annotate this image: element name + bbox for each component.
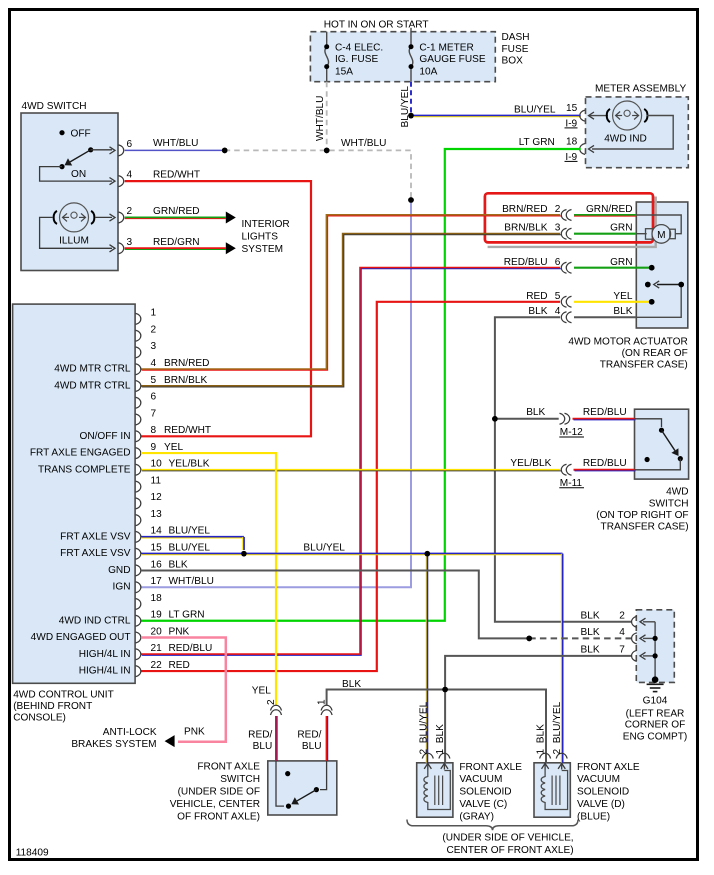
inline connector 1 (front axle switch) xyxy=(321,705,332,710)
svg-text:1: 1 xyxy=(151,308,157,319)
svg-text:ON/OFF IN: ON/OFF IN xyxy=(79,431,130,442)
svg-text:YEL: YEL xyxy=(252,686,271,697)
junction dot BLU/YEL xyxy=(408,113,414,119)
svg-text:FUSE: FUSE xyxy=(502,44,529,55)
actuator pin 4 inline connector xyxy=(561,312,566,323)
control unit pin numbers xyxy=(151,308,163,671)
svg-text:WHT/BLU: WHT/BLU xyxy=(341,138,386,149)
wire RED control unit pin 22 to actuator pin 5 xyxy=(141,302,560,671)
svg-text:1: 1 xyxy=(316,699,327,705)
wire RED/BLU connector 2 to front axle switch xyxy=(275,716,277,761)
svg-text:10A: 10A xyxy=(419,67,437,78)
wire BLK branch down to valve C pin 1 xyxy=(444,690,446,763)
illumination lamp ILLUM xyxy=(60,203,89,232)
fuse C-1 METER GAUGE FUSE 10A xyxy=(410,28,412,47)
lamp wire to pin 3 xyxy=(40,217,112,248)
svg-text:METER ASSEMBLY: METER ASSEMBLY xyxy=(595,83,687,94)
svg-text:11: 11 xyxy=(151,475,162,486)
svg-text:6: 6 xyxy=(127,139,133,150)
svg-text:5: 5 xyxy=(151,375,157,386)
svg-text:(BLUE): (BLUE) xyxy=(577,811,610,822)
svg-text:6: 6 xyxy=(151,392,157,403)
wire RED/BLU connector 1 to front axle switch xyxy=(326,716,328,761)
svg-text:SWITCH: SWITCH xyxy=(649,498,689,509)
dashed wire WHT/BLU to fuse box xyxy=(225,150,411,200)
svg-text:21: 21 xyxy=(151,643,163,654)
svg-text:BLU/YEL: BLU/YEL xyxy=(514,105,556,116)
junction dots overlay xyxy=(222,113,684,693)
svg-text:7: 7 xyxy=(151,408,157,419)
wire BLU/YEL to meter pin 15 xyxy=(411,115,581,117)
svg-text:5: 5 xyxy=(555,291,561,302)
dashed wire BLK to G104 pin 4 xyxy=(529,637,632,639)
junction dot on BLK dashed G104 pin 4 xyxy=(526,636,532,642)
junction dot M-12 branch xyxy=(492,416,498,422)
svg-text:4WD IND CTRL: 4WD IND CTRL xyxy=(59,615,131,626)
svg-text:(ON TOP RIGHT OF: (ON TOP RIGHT OF xyxy=(596,510,688,521)
control unit internal pin labels xyxy=(30,364,131,677)
svg-text:RED/BLU: RED/BLU xyxy=(583,407,627,418)
wire BLK to connector M-12 xyxy=(495,418,559,420)
ground connector G104 box xyxy=(636,610,674,683)
junction dot BLU/YEL to valve C xyxy=(425,551,431,557)
svg-text:4WD MTR CTRL: 4WD MTR CTRL xyxy=(54,364,131,375)
svg-text:17: 17 xyxy=(151,576,163,587)
svg-text:IG. FUSE: IG. FUSE xyxy=(335,54,378,65)
svg-text:TRANS COMPLETE: TRANS COMPLETE xyxy=(38,464,131,475)
svg-text:4: 4 xyxy=(151,358,157,369)
svg-text:BLK: BLK xyxy=(613,306,632,317)
4WD dash switch pin 4 bracket xyxy=(119,176,124,187)
front axle vacuum solenoid valve C box xyxy=(417,763,453,817)
actuator internal wire pin 2 to motor xyxy=(636,215,681,234)
wire BLU/YEL control unit pin 14 xyxy=(141,536,244,538)
svg-text:CORNER OF: CORNER OF xyxy=(625,720,686,731)
wire GRN/RED actuator pin 2 xyxy=(574,214,636,216)
svg-text:BRN/BLK: BRN/BLK xyxy=(504,222,547,233)
svg-text:BLK: BLK xyxy=(342,679,361,690)
wire LT GRN meter pin 18 to control unit pin 19 xyxy=(141,149,581,621)
wire RED/BLU M-12 to transfer case switch xyxy=(573,418,635,420)
svg-text:C-4 ELEC.: C-4 ELEC. xyxy=(335,43,383,54)
svg-text:TRANSFER CASE): TRANSFER CASE) xyxy=(600,360,688,371)
svg-text:7: 7 xyxy=(619,645,625,656)
wire BLK branch up to G104 pin 7 xyxy=(445,656,632,690)
svg-text:VALVE (D): VALVE (D) xyxy=(577,799,625,810)
svg-text:ON: ON xyxy=(71,169,86,180)
svg-text:DASH: DASH xyxy=(502,32,530,43)
svg-text:3: 3 xyxy=(151,341,157,352)
svg-text:15: 15 xyxy=(566,103,578,114)
svg-text:YEL: YEL xyxy=(164,442,183,453)
svg-text:LIGHTS: LIGHTS xyxy=(242,232,279,243)
svg-text:C-1 METER: C-1 METER xyxy=(419,43,473,54)
svg-text:ILLUM: ILLUM xyxy=(59,236,89,247)
svg-text:BLK: BLK xyxy=(581,627,600,638)
4WD switch (transfer case) box xyxy=(635,409,689,479)
svg-text:SYSTEM: SYSTEM xyxy=(242,244,284,255)
wire WHT/BLU from switch pin 6 xyxy=(125,149,225,151)
svg-text:G104: G104 xyxy=(643,696,668,707)
svg-text:9: 9 xyxy=(151,442,157,453)
wire BRN/RED control unit pin 4 to actuator pin 2 xyxy=(141,215,560,369)
svg-text:ENG COMPT): ENG COMPT) xyxy=(623,732,688,743)
svg-text:OF FRONT AXLE): OF FRONT AXLE) xyxy=(177,812,260,823)
svg-text:RED/GRN: RED/GRN xyxy=(153,237,200,248)
junction dot WHT/BLU xyxy=(222,148,228,154)
svg-text:1 BLK: 1 BLK xyxy=(435,724,446,755)
svg-text:BLU/YEL: BLU/YEL xyxy=(400,86,411,128)
actuator contact dot pin 5 xyxy=(649,299,655,305)
meter assembly box xyxy=(586,97,689,168)
svg-text:4WD IND: 4WD IND xyxy=(604,134,647,145)
wire BLU/YEL control unit pin 15 to valve D xyxy=(141,553,563,555)
front axle switch internal wires xyxy=(276,761,284,806)
control unit pin wire name labels xyxy=(164,358,214,671)
svg-text:12: 12 xyxy=(151,492,163,503)
svg-text:2: 2 xyxy=(619,611,625,622)
brace under solenoid valves xyxy=(407,820,578,831)
wire WHT/BLU to control unit pin 17 xyxy=(141,200,411,587)
junction dot fuse C-4 drop xyxy=(324,148,330,154)
red highlight box shadow xyxy=(488,197,656,247)
svg-text:4WD: 4WD xyxy=(666,487,688,498)
G104 pin 2 bracket and arrow xyxy=(632,616,637,627)
meter internal wire lamp to pin 18 xyxy=(592,116,673,150)
svg-text:IGN: IGN xyxy=(113,582,131,593)
svg-text:6: 6 xyxy=(555,257,561,268)
fuse C-4 ELEC IG FUSE 15A xyxy=(326,32,328,47)
wire BRN/BLK control unit pin 5 to actuator pin 3 xyxy=(141,234,560,386)
svg-text:VACUUM: VACUUM xyxy=(459,774,502,785)
svg-text:2 BLU/YEL: 2 BLU/YEL xyxy=(418,701,429,754)
dashed wire BLU/YEL from fuse C-1 xyxy=(410,82,412,116)
svg-text:GRN/RED: GRN/RED xyxy=(586,204,633,215)
junction dot pin14-pin15 xyxy=(241,551,247,557)
arrow to interior lights system (RED/GRN) xyxy=(226,242,236,254)
svg-text:4WD ENGAGED OUT: 4WD ENGAGED OUT xyxy=(31,632,131,643)
svg-text:RED: RED xyxy=(169,660,190,671)
svg-text:RED/: RED/ xyxy=(297,730,321,741)
svg-text:FRT AXLE VSV: FRT AXLE VSV xyxy=(60,531,131,542)
wire YEL/BLK control unit pin 10 to connector M-11 xyxy=(141,469,560,471)
svg-text:GAUGE FUSE: GAUGE FUSE xyxy=(419,54,485,65)
front axle switch box xyxy=(268,761,337,815)
svg-text:BLU/YEL: BLU/YEL xyxy=(169,542,211,553)
valve C internals coil and pins xyxy=(422,753,433,758)
svg-text:2: 2 xyxy=(266,699,277,705)
4WD dash switch pin 2 bracket xyxy=(119,212,124,223)
svg-text:RED/WHT: RED/WHT xyxy=(153,170,200,181)
svg-text:BLU: BLU xyxy=(253,741,273,752)
svg-text:BLU: BLU xyxy=(302,741,322,752)
4WD control unit box xyxy=(13,304,136,683)
arrow to interior lights system (GRN/RED) xyxy=(226,212,236,224)
actuator internal wire pin 3 to motor xyxy=(636,233,646,235)
svg-text:RED/BLU: RED/BLU xyxy=(583,458,627,469)
svg-text:VEHICLE, CENTER: VEHICLE, CENTER xyxy=(170,799,260,810)
svg-text:PNK: PNK xyxy=(184,727,205,738)
4WD dash switch ON contact and blade xyxy=(88,147,93,152)
svg-text:WHT/BLU: WHT/BLU xyxy=(153,138,198,149)
svg-text:VALVE (C): VALVE (C) xyxy=(459,799,507,810)
svg-text:RED/BLU: RED/BLU xyxy=(504,257,548,268)
svg-text:WHT/BLU: WHT/BLU xyxy=(169,576,214,587)
svg-text:4WD MTR CTRL: 4WD MTR CTRL xyxy=(54,380,131,391)
svg-text:19: 19 xyxy=(151,610,163,621)
wire BLK control unit pin 16 to G104 pin 4 xyxy=(141,570,529,638)
svg-text:(UNDER SIDE OF: (UNDER SIDE OF xyxy=(178,787,260,798)
svg-text:SOLENOID: SOLENOID xyxy=(577,787,629,798)
svg-text:BOX: BOX xyxy=(502,56,524,67)
svg-text:1 BLK: 1 BLK xyxy=(536,724,547,755)
4WD dash switch pin 6 bracket xyxy=(119,145,124,156)
svg-text:BLK: BLK xyxy=(581,611,600,622)
svg-text:HIGH/4L IN: HIGH/4L IN xyxy=(79,666,131,677)
4WD dash switch pin 3 bracket xyxy=(119,243,124,254)
svg-text:BRN/RED: BRN/RED xyxy=(502,204,547,215)
wire BLK actuator pin 4 right side and internal xyxy=(574,316,636,318)
actuator pin 2 inline connector xyxy=(561,210,566,221)
svg-text:GRN: GRN xyxy=(610,222,632,233)
wire YEL control unit pin 9 to front axle switch xyxy=(141,453,276,705)
svg-text:(GRAY): (GRAY) xyxy=(459,811,494,822)
front axle switch contacts and blade xyxy=(285,771,290,776)
wire BLU/YEL branch to valve C xyxy=(426,554,428,763)
svg-text:15A: 15A xyxy=(335,67,353,78)
arrow to anti-lock brakes system xyxy=(165,735,175,747)
svg-text:BLK: BLK xyxy=(581,645,600,656)
motor M xyxy=(646,229,655,240)
wire GRN actuator pin 3 xyxy=(574,233,636,235)
4WD switch (dash) box xyxy=(21,113,118,271)
svg-text:HIGH/4L IN: HIGH/4L IN xyxy=(79,649,131,660)
svg-text:BRAKES SYSTEM: BRAKES SYSTEM xyxy=(71,739,156,750)
svg-text:18: 18 xyxy=(566,137,578,148)
svg-text:RED/: RED/ xyxy=(248,730,272,741)
svg-text:SWITCH: SWITCH xyxy=(220,774,260,785)
junction dot WHT/BLU riser top xyxy=(408,197,414,203)
G104 pin 7 bracket and arrow xyxy=(632,650,637,661)
wire RED/WHT from switch pin 4 to control unit pin 8 xyxy=(125,181,311,436)
svg-text:4WD SWITCH: 4WD SWITCH xyxy=(22,101,87,112)
svg-text:INTERIOR: INTERIOR xyxy=(242,219,290,230)
svg-text:14: 14 xyxy=(151,526,163,537)
wire BLK bottom net front axle switch to valve D xyxy=(327,690,546,763)
inline connector M-11 xyxy=(561,464,566,475)
G104 pin 4 bracket and arrow xyxy=(632,633,637,644)
G104 ground connection dot xyxy=(652,676,659,683)
front axle vacuum solenoid valve D box xyxy=(534,763,570,817)
svg-text:BRN/RED: BRN/RED xyxy=(164,358,209,369)
transfer case switch internals xyxy=(635,419,662,427)
svg-text:2: 2 xyxy=(555,204,561,215)
svg-text:10: 10 xyxy=(151,459,163,470)
4WD IND lamp xyxy=(613,101,642,130)
svg-text:(ON REAR OF: (ON REAR OF xyxy=(622,348,688,359)
svg-text:YEL/BLK: YEL/BLK xyxy=(510,458,551,469)
svg-text:GRN: GRN xyxy=(610,257,632,268)
svg-text:20: 20 xyxy=(151,626,163,637)
svg-text:4: 4 xyxy=(127,170,133,181)
svg-text:GRN/RED: GRN/RED xyxy=(153,206,200,217)
red highlight box xyxy=(485,193,653,242)
svg-text:HOT IN ON OR START: HOT IN ON OR START xyxy=(324,19,429,30)
svg-text:BLU/YEL: BLU/YEL xyxy=(303,542,345,553)
svg-text:BLU/YEL: BLU/YEL xyxy=(169,526,211,537)
4WD motor actuator box xyxy=(636,202,688,328)
svg-text:15: 15 xyxy=(151,542,163,553)
actuator pin 5 inline connector xyxy=(561,296,566,307)
svg-text:RED: RED xyxy=(526,291,547,302)
svg-text:3: 3 xyxy=(127,237,133,248)
svg-text:CENTER OF FRONT AXLE): CENTER OF FRONT AXLE) xyxy=(446,845,573,856)
svg-text:(LEFT REAR: (LEFT REAR xyxy=(626,709,685,720)
actuator contact dot pin 6 xyxy=(649,265,655,271)
svg-text:FRONT AXLE: FRONT AXLE xyxy=(577,762,640,773)
svg-text:FRONT AXLE: FRONT AXLE xyxy=(197,762,260,773)
wire RED/BLU M-11 to transfer case switch xyxy=(574,469,635,471)
junction dot bottom BLK net xyxy=(442,687,448,693)
svg-text:BLK: BLK xyxy=(528,306,547,317)
valve D internals coil and pins xyxy=(540,753,551,758)
control unit pin brackets 1-22 xyxy=(136,313,141,676)
svg-text:FRT AXLE ENGAGED: FRT AXLE ENGAGED xyxy=(30,448,131,459)
wire GRN/RED to interior lights xyxy=(125,217,226,219)
svg-text:CONSOLE): CONSOLE) xyxy=(13,713,66,724)
lamp wire to pin 2 xyxy=(96,216,113,218)
svg-text:4WD MOTOR ACTUATOR: 4WD MOTOR ACTUATOR xyxy=(568,337,687,348)
svg-text:RED/WHT: RED/WHT xyxy=(164,425,211,436)
svg-text:2: 2 xyxy=(127,206,133,217)
svg-text:FRONT AXLE: FRONT AXLE xyxy=(459,762,522,773)
svg-text:BLK: BLK xyxy=(169,559,188,570)
svg-text:3: 3 xyxy=(555,222,561,233)
svg-text:16: 16 xyxy=(151,559,163,570)
wire PNK control unit pin 20 to anti-lock brakes xyxy=(141,638,226,742)
inline connector 2 (front axle switch) xyxy=(271,705,282,710)
svg-text:VACUUM: VACUUM xyxy=(577,774,620,785)
inline connector M-12 xyxy=(560,413,565,424)
svg-text:4: 4 xyxy=(619,627,625,638)
meter pin 15 internal arrow xyxy=(589,115,609,117)
svg-text:OFF: OFF xyxy=(71,129,91,140)
dash fuse box xyxy=(310,32,495,82)
svg-text:ANTI-LOCK: ANTI-LOCK xyxy=(103,727,157,738)
4WD dash switch internal wire to pin 4 xyxy=(40,167,112,182)
svg-text:118409: 118409 xyxy=(16,848,49,859)
svg-text:YEL: YEL xyxy=(613,291,632,302)
svg-text:PNK: PNK xyxy=(169,626,190,637)
svg-text:FRT AXLE VSV: FRT AXLE VSV xyxy=(60,548,131,559)
svg-text:2: 2 xyxy=(151,324,157,335)
svg-text:8: 8 xyxy=(151,425,157,436)
svg-text:4WD CONTROL UNIT: 4WD CONTROL UNIT xyxy=(13,690,114,701)
meter pin 15 bracket xyxy=(580,110,585,121)
svg-text:18: 18 xyxy=(151,593,163,604)
svg-text:LT GRN: LT GRN xyxy=(169,610,205,621)
svg-text:SOLENOID: SOLENOID xyxy=(459,787,511,798)
actuator pin 6 inline connector xyxy=(561,262,566,273)
4WD dash switch OFF contact xyxy=(59,130,64,135)
wire YEL actuator pin 5 xyxy=(574,301,652,303)
svg-text:LT GRN: LT GRN xyxy=(519,137,555,148)
actuator wiper arm xyxy=(657,284,681,286)
svg-text:TRANSFER CASE): TRANSFER CASE) xyxy=(601,522,689,533)
G104 internal bus xyxy=(654,622,656,680)
svg-text:(BEHIND FRONT: (BEHIND FRONT xyxy=(13,701,92,712)
wire GRN actuator pin 6 xyxy=(574,267,652,269)
4WD dash switch wire contact to pin 6 xyxy=(91,149,112,151)
actuator pin 3 inline connector xyxy=(561,228,566,239)
wire BLK actuator pin 4 to G104 pin 2 xyxy=(495,317,632,622)
svg-text:YEL/BLK: YEL/BLK xyxy=(169,459,210,470)
svg-text:22: 22 xyxy=(151,660,163,671)
svg-text:GND: GND xyxy=(108,565,130,576)
svg-text:2 BLU/YEL: 2 BLU/YEL xyxy=(552,701,563,754)
meter pin 18 bracket xyxy=(580,144,585,155)
svg-text:BRN/BLK: BRN/BLK xyxy=(164,375,207,386)
svg-text:(UNDER SIDE OF VEHICLE,: (UNDER SIDE OF VEHICLE, xyxy=(442,833,573,844)
svg-text:4: 4 xyxy=(555,306,561,317)
wire RED/BLU control unit pin 21 to actuator pin 6 xyxy=(141,268,560,655)
svg-text:M: M xyxy=(657,230,665,241)
wire RED/GRN to interior lights xyxy=(125,247,226,249)
svg-text:WHT/BLU: WHT/BLU xyxy=(315,96,326,141)
svg-text:13: 13 xyxy=(151,509,163,520)
svg-text:BLK: BLK xyxy=(526,407,545,418)
ground symbol xyxy=(647,683,664,685)
svg-text:RED/BLU: RED/BLU xyxy=(169,643,213,654)
